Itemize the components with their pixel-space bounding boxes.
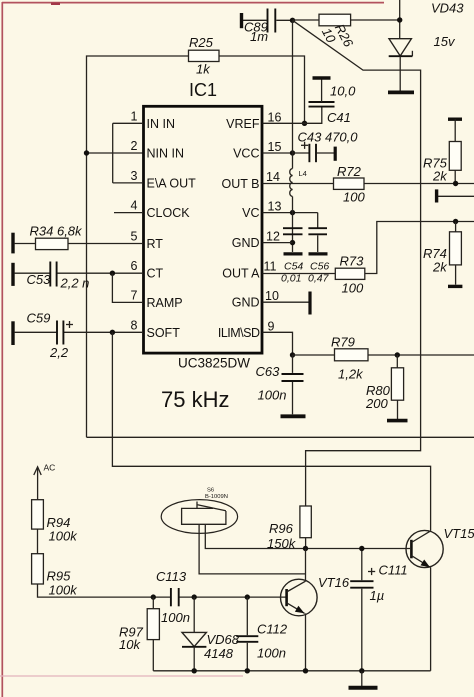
switch S6 xyxy=(161,488,237,534)
node OUT B / R75 junction xyxy=(453,181,458,186)
svg-text:R79: R79 xyxy=(331,335,355,350)
svg-text:1µ: 1µ xyxy=(370,588,385,603)
diode VD68 xyxy=(182,597,240,671)
wire VC to GND vertical xyxy=(292,197,294,253)
resistor R75 with terminal xyxy=(423,119,462,183)
svg-text:SOFT: SOFT xyxy=(147,326,181,340)
inductor L4 xyxy=(290,169,307,197)
svg-text:OUT B: OUT B xyxy=(222,177,260,191)
wire pin13 VC xyxy=(263,213,318,228)
capacitor C56 xyxy=(308,228,330,284)
svg-text:OUT A: OUT A xyxy=(222,267,260,281)
svg-text:CLOCK: CLOCK xyxy=(147,206,191,220)
wire VT16 emitter vertical xyxy=(305,613,307,670)
svg-text:VD43: VD43 xyxy=(431,1,464,16)
svg-text:0,47: 0,47 xyxy=(308,273,330,285)
svg-text:2,2 n: 2,2 n xyxy=(60,276,90,291)
svg-text:C59: C59 xyxy=(27,311,51,326)
wire pin14 OUT B xyxy=(263,183,474,185)
svg-text:GND: GND xyxy=(232,296,260,310)
svg-text:R72: R72 xyxy=(337,164,362,179)
wire VT15 emitter vertical xyxy=(430,568,432,671)
svg-text:75 kHz: 75 kHz xyxy=(161,387,229,412)
svg-text:VC: VC xyxy=(242,206,259,220)
svg-text:R34 6,8k: R34 6,8k xyxy=(30,224,84,239)
wire C: C89 node diagonal to R96 xyxy=(293,20,421,506)
svg-text:8: 8 xyxy=(131,318,138,332)
ground under VD43 xyxy=(388,91,414,95)
svg-text:ILIM\SD: ILIM\SD xyxy=(218,326,260,340)
transistor Q1 VT15 xyxy=(406,526,474,568)
node VT16 emitter bottom xyxy=(303,668,308,673)
svg-text:7: 7 xyxy=(131,288,138,302)
node R97 top junction xyxy=(151,594,156,599)
svg-text:2k: 2k xyxy=(432,169,448,184)
svg-text:R96: R96 xyxy=(269,521,294,536)
pin numbers left xyxy=(131,109,138,332)
ground under C63 xyxy=(281,414,306,418)
node C111 top junction xyxy=(359,546,364,551)
svg-text:UC3825DW: UC3825DW xyxy=(178,356,250,371)
capacitor C113 xyxy=(156,569,190,625)
red frame bottom faint line xyxy=(0,675,243,677)
ground under C56 xyxy=(309,252,328,255)
svg-text:C54: C54 xyxy=(284,261,303,273)
svg-text:11: 11 xyxy=(264,260,277,274)
capacitor C112 xyxy=(236,597,288,671)
ground under R80 xyxy=(387,419,408,423)
wire: pin2 feedback vertical + R25 net + wire A to right edge xyxy=(87,56,474,437)
wire pins 1-3 bracket xyxy=(113,123,143,183)
wire top supply stub xyxy=(399,0,401,39)
svg-text:15: 15 xyxy=(268,140,282,154)
node R79-R80 junction xyxy=(395,352,400,357)
svg-text:3: 3 xyxy=(131,169,138,183)
svg-text:C56: C56 xyxy=(310,261,329,273)
wire switch terminal 2 / VT15 base rail xyxy=(205,524,410,548)
terminal bar pin10 xyxy=(308,292,311,315)
wire pin12 xyxy=(263,242,293,244)
svg-text:L4: L4 xyxy=(299,169,307,178)
transistor Q2 VT16 xyxy=(281,575,350,616)
resistor R34 xyxy=(30,224,84,250)
ground under C54 xyxy=(284,252,303,255)
svg-text:AC: AC xyxy=(44,463,56,473)
connector terminal bar left (SOFT row) xyxy=(11,321,14,345)
wire pin9 ILIM xyxy=(263,332,293,355)
svg-text:100k: 100k xyxy=(49,529,79,544)
svg-text:CT: CT xyxy=(147,267,164,281)
node pin12 junction xyxy=(290,240,295,245)
svg-text:NIN IN: NIN IN xyxy=(147,147,185,161)
svg-text:VT16: VT16 xyxy=(318,575,350,590)
svg-text:200: 200 xyxy=(365,396,388,411)
capacitor C53 xyxy=(27,262,90,291)
svg-text:4: 4 xyxy=(131,199,138,213)
capacitor C54 xyxy=(281,228,303,284)
node C111 bottom xyxy=(359,668,364,673)
node pin6 junction xyxy=(110,271,115,276)
svg-text:4148: 4148 xyxy=(204,646,234,661)
red frame notch xyxy=(51,3,60,5)
wire pin6 xyxy=(14,272,50,274)
svg-text:9: 9 xyxy=(268,319,275,333)
svg-text:150k: 150k xyxy=(267,536,297,551)
svg-text:100k: 100k xyxy=(49,583,79,598)
connector terminal bar left (CT row) xyxy=(11,263,14,286)
resistor R96 xyxy=(267,506,311,551)
wire pin5 xyxy=(14,243,143,245)
node VD68 top junction xyxy=(192,594,197,599)
AC arrow input xyxy=(34,463,56,500)
pin names left xyxy=(147,117,197,340)
capacitor C59 xyxy=(27,311,74,361)
svg-text:100: 100 xyxy=(343,190,365,205)
svg-text:1m: 1m xyxy=(250,29,268,44)
capacitor C89 with input terminal xyxy=(242,9,293,45)
connector terminal bar left (RT row) xyxy=(11,233,14,254)
svg-text:R73: R73 xyxy=(340,254,365,269)
capacitor C63 xyxy=(256,355,304,414)
svg-text:16: 16 xyxy=(268,110,282,124)
svg-text:2k: 2k xyxy=(432,260,448,275)
svg-text:10,0: 10,0 xyxy=(330,84,356,99)
wire R94-R95 xyxy=(37,529,39,554)
svg-text:14: 14 xyxy=(266,170,280,184)
svg-text:2,2: 2,2 xyxy=(49,345,69,360)
node C112 bottom xyxy=(245,668,250,673)
wire pin16 xyxy=(263,122,305,124)
svg-text:C113: C113 xyxy=(156,569,187,584)
wire pin10 xyxy=(263,301,309,303)
svg-text:100n: 100n xyxy=(257,646,286,661)
op-amp U1 IC1 box UC3825DW xyxy=(144,80,263,412)
pin numbers right xyxy=(264,110,282,333)
resistor R26 xyxy=(293,14,400,50)
svg-text:RT: RT xyxy=(147,237,164,251)
svg-text:1k: 1k xyxy=(196,62,211,77)
svg-text:1,2k: 1,2k xyxy=(338,367,364,382)
resistor R74 xyxy=(423,222,462,287)
node pin16 junction xyxy=(302,121,307,126)
svg-text:C53: C53 xyxy=(27,272,52,287)
node pin9 junction xyxy=(290,352,295,357)
resistor R94 xyxy=(32,500,79,544)
wire VCC vertical from C89 node xyxy=(292,20,294,168)
svg-text:VT15: VT15 xyxy=(444,526,474,541)
node pin13 junction xyxy=(290,210,295,215)
svg-text:S6: S6 xyxy=(207,488,214,494)
wire pin8 xyxy=(14,331,57,333)
svg-text:R25: R25 xyxy=(189,35,214,50)
resistor R95 xyxy=(32,554,79,598)
svg-text:C63: C63 xyxy=(256,364,281,379)
capacitor C43 xyxy=(293,130,359,163)
terminal bar mid-right xyxy=(437,189,474,202)
pin names right xyxy=(218,117,260,340)
resistor R97 xyxy=(119,597,159,671)
svg-text:13: 13 xyxy=(268,200,282,214)
capacitor C41 xyxy=(305,78,357,125)
svg-text:6: 6 xyxy=(131,259,138,273)
node R96 bottom junction xyxy=(303,546,308,551)
ground bottom xyxy=(349,671,378,688)
svg-text:B-1009N: B-1009N xyxy=(205,494,228,500)
svg-text:IC1: IC1 xyxy=(189,80,217,100)
wire R95 to bottom rail xyxy=(38,584,171,597)
resistor R1 R25 xyxy=(189,35,220,77)
resistor R80 xyxy=(365,355,404,420)
svg-text:E\A OUT: E\A OUT xyxy=(147,176,197,190)
node C112 top junction xyxy=(245,594,250,599)
wire VT16 collector vertical xyxy=(305,549,307,582)
svg-text:100n: 100n xyxy=(258,388,287,403)
svg-text:10k: 10k xyxy=(119,637,141,652)
capacitor C111 xyxy=(350,549,407,671)
svg-text:100n: 100n xyxy=(161,610,190,625)
wire B: pin8 to VT15 collector xyxy=(112,332,430,531)
svg-text:C111: C111 xyxy=(379,563,408,578)
svg-text:IN IN: IN IN xyxy=(147,117,175,131)
svg-text:2: 2 xyxy=(131,139,138,153)
wire bracket pin6-pin7 xyxy=(112,273,143,302)
wire pin15 xyxy=(263,152,293,154)
red frame left line xyxy=(1,2,3,697)
wire switch terminal 1 xyxy=(199,524,305,574)
svg-text:15v: 15v xyxy=(434,34,456,49)
svg-text:VD68: VD68 xyxy=(207,632,240,647)
svg-text:10: 10 xyxy=(265,289,279,303)
red frame top line xyxy=(2,2,384,4)
resistor R72 xyxy=(334,164,366,205)
svg-text:5: 5 xyxy=(131,230,138,244)
svg-text:C41: C41 xyxy=(327,110,351,125)
wire pin11 OUT A to R74 xyxy=(263,273,336,275)
svg-text:GND: GND xyxy=(232,236,260,250)
svg-text:VREF: VREF xyxy=(226,117,260,131)
svg-text:R95: R95 xyxy=(47,569,72,584)
node R26 junction xyxy=(397,17,402,22)
resistor R79 xyxy=(293,335,474,382)
node pin15 junction xyxy=(290,150,295,155)
svg-text:12: 12 xyxy=(266,230,280,244)
zener diode VD43 xyxy=(389,1,465,91)
svg-text:1: 1 xyxy=(131,109,138,123)
svg-text:VCC: VCC xyxy=(233,147,259,161)
svg-text:100: 100 xyxy=(342,281,364,296)
node pin2 junction xyxy=(84,150,89,155)
svg-text:C112: C112 xyxy=(257,622,288,637)
wire pin4 stub xyxy=(114,212,143,214)
resistor R73 xyxy=(335,222,474,296)
node R74 junction xyxy=(453,219,458,224)
wire bottom rail xyxy=(153,670,430,672)
svg-text:0,01: 0,01 xyxy=(281,273,301,285)
svg-text:C43 470,0: C43 470,0 xyxy=(298,130,359,145)
svg-text:RAMP: RAMP xyxy=(147,296,183,310)
node C89 junction xyxy=(290,18,295,23)
node pin8 junction xyxy=(110,330,115,335)
node VD68 bottom xyxy=(192,668,197,673)
